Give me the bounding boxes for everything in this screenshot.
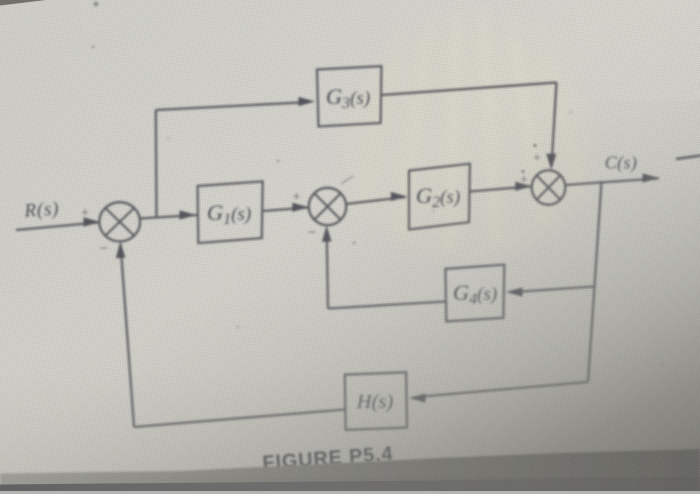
stray dash cut at right edge xyxy=(676,156,700,160)
plus sign before summer S3 left input xyxy=(520,170,528,188)
block G3 xyxy=(317,66,381,126)
summing junction S2 xyxy=(309,188,346,225)
wire: R(s) input line into summer S1 xyxy=(16,217,100,230)
plus sign at summer S1 left input xyxy=(81,206,89,221)
minus sign at summer S1 bottom input xyxy=(99,241,107,257)
summing junction S1 xyxy=(99,202,140,241)
smudge mark above summer S2 xyxy=(341,176,353,184)
plus sign at summer S3 top input xyxy=(533,144,541,166)
bottom light strip xyxy=(0,491,700,494)
label R(s) xyxy=(23,198,60,221)
wire: into H right side xyxy=(409,382,588,403)
wire: up into summer S2 bottom xyxy=(322,226,332,309)
caption FIGURE P5.4 xyxy=(262,443,394,475)
wire: output line C(s) xyxy=(565,173,659,185)
wire: left vertical up into summer S1 bottom xyxy=(116,242,134,428)
wire: horizontal line into G3 xyxy=(156,97,315,110)
wire: drop down into summer S3 top xyxy=(546,83,556,171)
bottom dark strip xyxy=(0,478,700,492)
dark sliver top-left corner xyxy=(0,0,46,6)
wire: summer S1 to block G1 xyxy=(139,210,197,219)
node: takeoff before G1 xyxy=(156,217,158,219)
block H xyxy=(345,372,407,430)
block G2 xyxy=(409,164,470,230)
block G1 xyxy=(198,181,263,243)
block G4 xyxy=(445,265,504,322)
wire: into G4 right side xyxy=(506,287,595,297)
plus sign at summer S2 left input xyxy=(293,190,301,205)
label C(s) xyxy=(605,153,638,174)
wire: H output left to corner xyxy=(134,410,345,428)
minus sign at summer S2 bottom input xyxy=(308,225,316,241)
wire: branch vertical up to G3 path xyxy=(155,110,158,218)
wire: G2 output into summer S3 xyxy=(470,182,532,192)
wire: summer S2 to block G2 xyxy=(346,192,407,204)
wire: G1 output into summer S2 xyxy=(263,203,309,212)
wire: takeoff vertical down xyxy=(588,182,602,383)
wire: G4 output left to corner xyxy=(328,302,446,309)
dust specks xyxy=(92,2,665,366)
summing junction S3 xyxy=(532,170,566,204)
wire: G3 output to corner xyxy=(382,83,557,96)
node: output takeoff xyxy=(601,181,603,183)
warm reflection streaks xyxy=(343,10,593,260)
